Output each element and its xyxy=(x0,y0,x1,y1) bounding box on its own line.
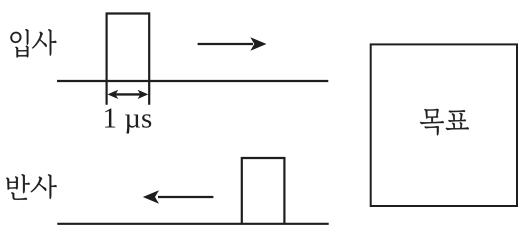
wire: bottom signal baseline xyxy=(57,223,328,225)
label: 목표 (target) xyxy=(420,109,469,136)
wire: top signal baseline xyxy=(57,80,328,82)
dimension arrow: pulse width (double-headed) xyxy=(108,90,149,99)
svg-text:1 µs: 1 µs xyxy=(103,103,153,135)
arrow: incident propagation (rightward) xyxy=(198,37,267,51)
target box (목표) xyxy=(371,44,517,206)
reflected pulse xyxy=(242,158,285,224)
arrow: reflected propagation (leftward) xyxy=(143,190,214,204)
label: 반사 (reflected wave) xyxy=(6,174,56,200)
incident pulse (1 µs rectangular pulse) xyxy=(107,14,150,105)
label: 입사 (incident wave) xyxy=(10,29,56,57)
